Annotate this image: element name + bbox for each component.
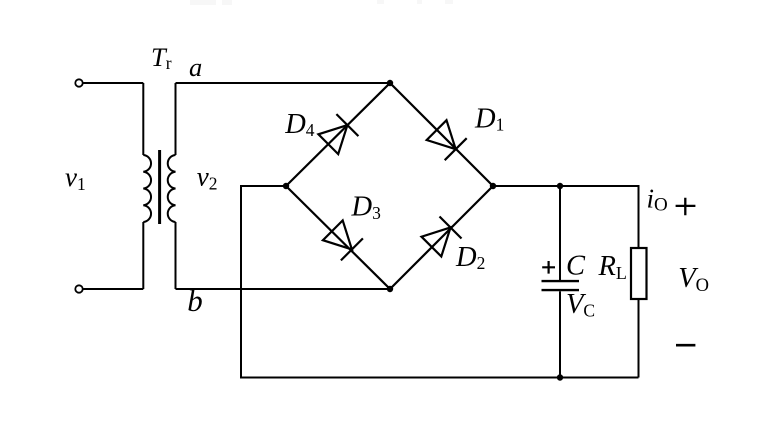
- junction node bridge top: [387, 80, 393, 86]
- junction node bridge bottom: [387, 286, 393, 292]
- minus sign output: [676, 344, 695, 347]
- wire node a to bridge top: [176, 82, 391, 84]
- capacitor C plates: [542, 281, 580, 290]
- svg-text:C: C: [566, 251, 586, 282]
- svg-text:Tr: Tr: [151, 42, 172, 73]
- capacitor C bottom lead: [559, 291, 561, 377]
- transformer Tr core: [158, 150, 161, 224]
- junction node bridge left: [283, 183, 289, 189]
- svg-text:D3: D3: [351, 192, 382, 224]
- diode D1: [427, 120, 467, 160]
- wire bridge left node to bottom rail: [241, 186, 639, 378]
- transformer Tr primary winding: [143, 83, 151, 289]
- junction node capacitor top: [557, 183, 563, 189]
- junction node capacitor bottom: [557, 374, 563, 380]
- transformer Tr secondary winding: [168, 83, 176, 289]
- junction node bridge right: [490, 183, 496, 189]
- svg-text:v1: v1: [65, 162, 86, 194]
- svg-text:a: a: [189, 52, 202, 82]
- plus sign output: [676, 198, 696, 215]
- svg-text:RL: RL: [598, 251, 627, 283]
- resistor RL body: [631, 248, 647, 299]
- wire bridge right node to load: [493, 186, 639, 248]
- terminal bottom-left: [75, 285, 82, 292]
- wire node b to bridge bottom: [176, 288, 391, 290]
- svg-text:D1: D1: [474, 104, 504, 135]
- svg-text:iO: iO: [647, 184, 668, 216]
- wire bottom-left: [83, 288, 143, 290]
- wire top-left: [83, 82, 143, 84]
- svg-text:VC: VC: [566, 289, 595, 321]
- svg-text:D4: D4: [284, 109, 315, 140]
- svg-text:VO: VO: [678, 263, 709, 296]
- diode D2: [422, 217, 462, 257]
- capacitor C top lead: [559, 186, 561, 280]
- capacitor plus polarity mark: [542, 261, 555, 274]
- bridge diamond wires: [286, 83, 493, 289]
- resistor RL bottom lead: [638, 299, 640, 378]
- faint cut-off caption remnants: [190, 0, 453, 5]
- svg-text:D2: D2: [455, 242, 485, 273]
- diode D4: [318, 114, 358, 154]
- diode D3: [323, 220, 363, 260]
- terminal top-left: [75, 79, 82, 86]
- svg-text:v2: v2: [197, 162, 218, 194]
